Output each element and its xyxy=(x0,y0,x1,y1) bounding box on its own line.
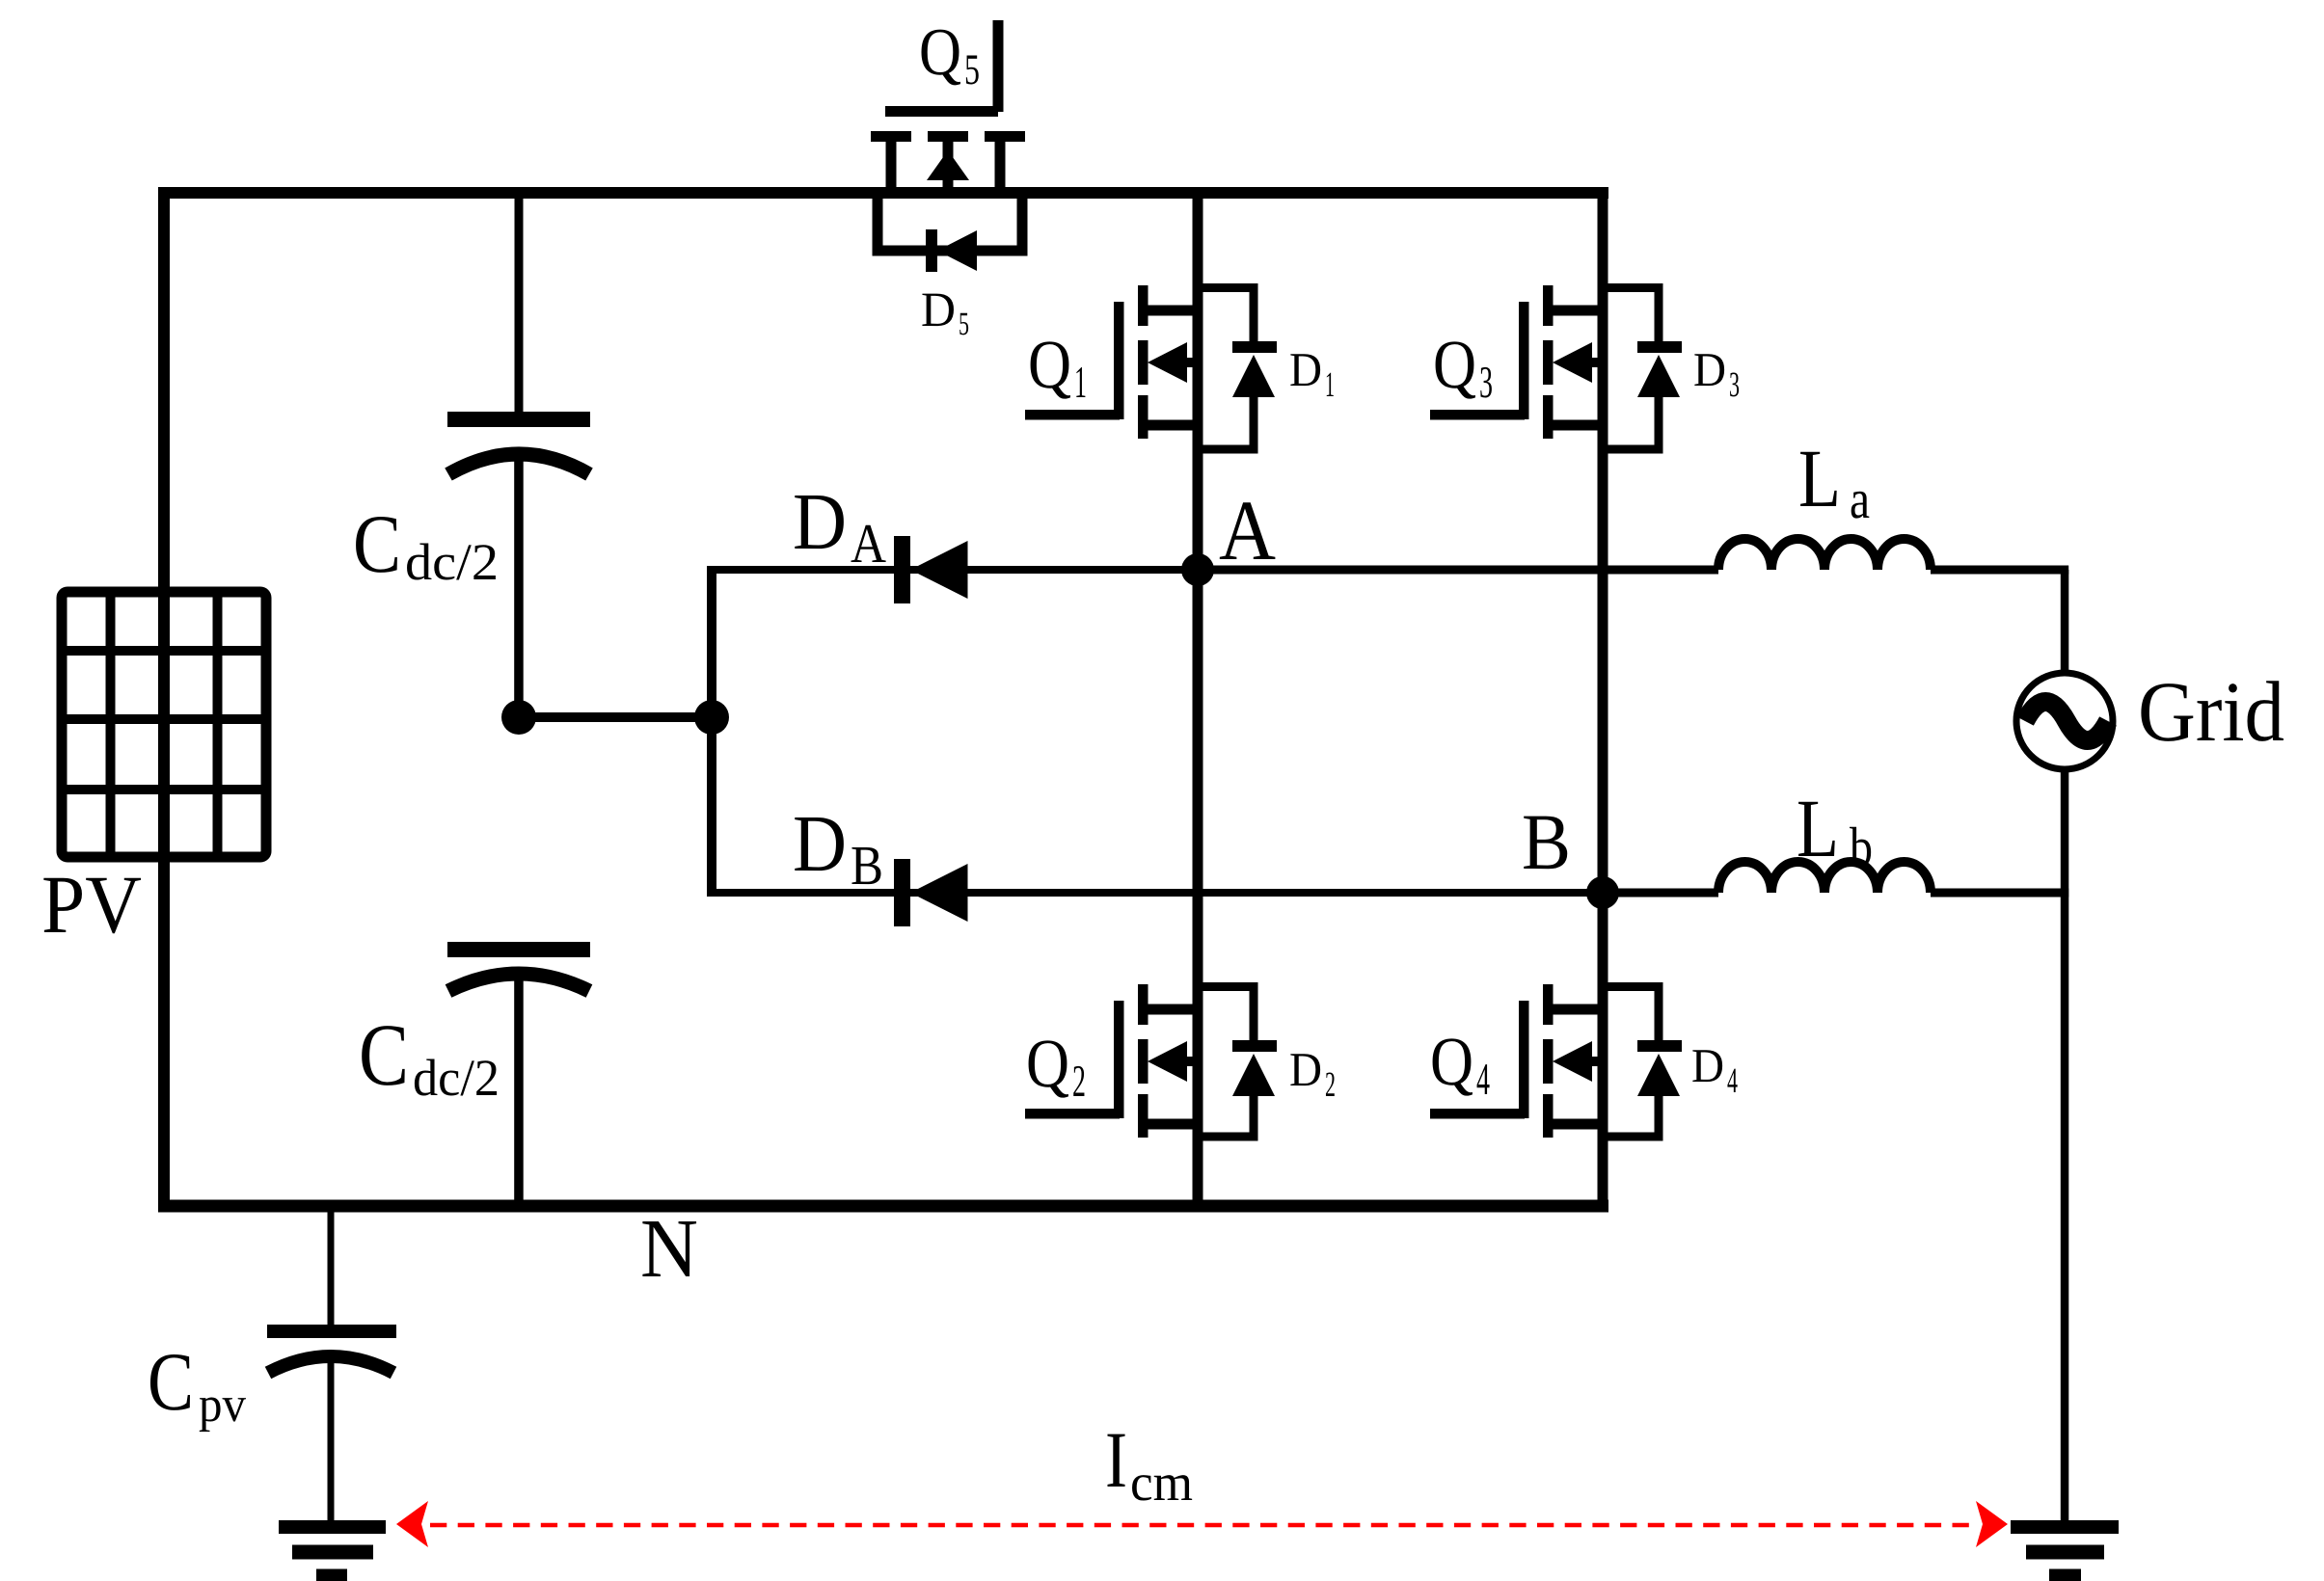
wire: capacitor rail middle lead xyxy=(514,458,524,717)
diode D2 (body) xyxy=(1198,982,1277,1141)
wire: bottom rail (node N) xyxy=(158,1200,1608,1213)
label Q1 xyxy=(1028,326,1087,408)
svg-text:D: D xyxy=(1289,1042,1322,1096)
svg-text:D: D xyxy=(1691,1038,1724,1092)
label N xyxy=(640,1201,698,1295)
wire: left rail (PV positive) xyxy=(158,187,170,1212)
junction: capacitor midpoint xyxy=(501,700,536,735)
wire: node B to Lb xyxy=(1603,889,1718,898)
transistor Q1 xyxy=(1025,285,1198,439)
label Icm xyxy=(1105,1415,1193,1512)
svg-text:5: 5 xyxy=(964,45,980,94)
svg-text:C: C xyxy=(148,1335,194,1428)
wire: capacitor rail upper lead xyxy=(515,193,524,415)
diode D3 (body) xyxy=(1603,283,1682,454)
diode D5 xyxy=(873,193,1028,272)
svg-text:2: 2 xyxy=(1325,1065,1336,1105)
svg-text:C: C xyxy=(359,1005,409,1104)
wire: La to grid corner xyxy=(1931,566,2068,674)
svg-text:L: L xyxy=(1797,782,1839,874)
wire: DA horizontal xyxy=(707,566,1198,574)
svg-text:D: D xyxy=(793,799,847,889)
svg-text:dc/2: dc/2 xyxy=(405,533,499,591)
svg-text:B: B xyxy=(851,834,883,897)
svg-text:4: 4 xyxy=(1727,1061,1738,1101)
wire: Cpv upper lead xyxy=(328,1206,335,1326)
svg-text:D: D xyxy=(1289,342,1322,396)
label Q4 xyxy=(1430,1023,1490,1105)
label D3 xyxy=(1693,342,1740,405)
svg-text:D: D xyxy=(921,283,956,337)
wire: DB horizontal xyxy=(707,889,1603,897)
label DA xyxy=(793,477,886,575)
junction: clamp-diode midpoint xyxy=(694,700,729,735)
diode DB xyxy=(894,859,968,926)
svg-text:PV: PV xyxy=(41,858,142,951)
inductor Lb xyxy=(1718,862,1931,893)
label A xyxy=(1219,484,1276,578)
wire: Cpv lower lead xyxy=(328,1359,335,1521)
label DB xyxy=(793,799,883,897)
svg-text:b: b xyxy=(1850,816,1873,878)
label Grid xyxy=(2138,665,2284,760)
label Cdc/2 (upper) xyxy=(353,497,499,591)
svg-text:cm: cm xyxy=(1130,1453,1193,1512)
svg-text:Grid: Grid xyxy=(2138,665,2284,760)
svg-text:4: 4 xyxy=(1476,1055,1490,1105)
transistor Q2 xyxy=(1025,984,1198,1138)
svg-text:Q: Q xyxy=(1026,1025,1069,1102)
wire: top DC rail xyxy=(158,187,1608,199)
capacitor Cdc/2 (lower) xyxy=(447,942,590,991)
svg-text:dc/2: dc/2 xyxy=(413,1049,500,1107)
svg-text:Q: Q xyxy=(919,15,961,90)
wire: bridge right vertical leg (Q3/Q4) xyxy=(1598,193,1608,1206)
svg-text:3: 3 xyxy=(1479,358,1493,408)
diode DA xyxy=(894,536,968,603)
wire: midpoint link xyxy=(519,712,712,722)
transistor Q3 xyxy=(1430,285,1603,439)
ground (right, grid) xyxy=(2011,1520,2119,1581)
label La xyxy=(1798,432,1870,530)
svg-text:Q: Q xyxy=(1430,1023,1473,1100)
node A xyxy=(1181,553,1214,586)
svg-text:N: N xyxy=(640,1201,698,1295)
label D4 xyxy=(1691,1038,1738,1101)
capacitor Cdc/2 (upper) xyxy=(447,412,590,474)
node B xyxy=(1586,876,1619,909)
PV array source xyxy=(62,592,266,857)
label Lb xyxy=(1797,782,1873,878)
label B xyxy=(1522,797,1571,886)
svg-text:C: C xyxy=(353,497,401,590)
ground (left, Cpv) xyxy=(279,1520,386,1581)
svg-text:1: 1 xyxy=(1325,365,1335,405)
wire: clamp vertical (DA-DB) xyxy=(707,566,716,897)
AC source Grid xyxy=(2016,673,2113,769)
svg-text:I: I xyxy=(1105,1415,1127,1504)
label Q3 xyxy=(1433,326,1493,408)
label Cdc/2 (lower) xyxy=(359,1005,500,1107)
label D1 xyxy=(1289,342,1335,405)
svg-text:2: 2 xyxy=(1072,1057,1086,1107)
svg-text:D: D xyxy=(793,477,847,567)
wire: Lb to grid vertical xyxy=(1931,889,2068,898)
svg-text:A: A xyxy=(1219,484,1276,578)
transistor Q4 xyxy=(1430,984,1603,1138)
wire: bridge left vertical leg (Q1/Q2) xyxy=(1193,193,1203,1206)
svg-text:1: 1 xyxy=(1074,358,1087,408)
svg-text:Q: Q xyxy=(1433,326,1476,403)
svg-text:A: A xyxy=(851,512,886,575)
svg-text:B: B xyxy=(1522,797,1571,886)
label PV xyxy=(41,858,142,951)
inductor La xyxy=(1718,539,1931,570)
svg-text:L: L xyxy=(1798,432,1841,524)
diode D1 (body) xyxy=(1198,283,1277,454)
label Cpv xyxy=(148,1335,246,1433)
wire: node A to La xyxy=(1198,566,1718,575)
wire: grid source to right ground xyxy=(2061,769,2069,1521)
diode D4 (body) xyxy=(1603,982,1682,1141)
label D5 xyxy=(921,283,969,342)
svg-text:D: D xyxy=(1693,342,1726,396)
svg-text:3: 3 xyxy=(1729,365,1740,405)
capacitor Cpv xyxy=(267,1325,396,1373)
svg-text:5: 5 xyxy=(959,307,969,342)
svg-text:a: a xyxy=(1850,468,1870,530)
svg-text:pv: pv xyxy=(199,1378,246,1433)
wire: capacitor rail lower lead xyxy=(514,978,524,1206)
Icm common-mode current arrow xyxy=(396,1501,2008,1547)
svg-text:Q: Q xyxy=(1028,326,1071,403)
label D2 xyxy=(1289,1042,1336,1105)
label Q2 xyxy=(1026,1025,1086,1107)
label Q5 xyxy=(919,15,980,94)
transistor Q5 xyxy=(871,20,1025,193)
